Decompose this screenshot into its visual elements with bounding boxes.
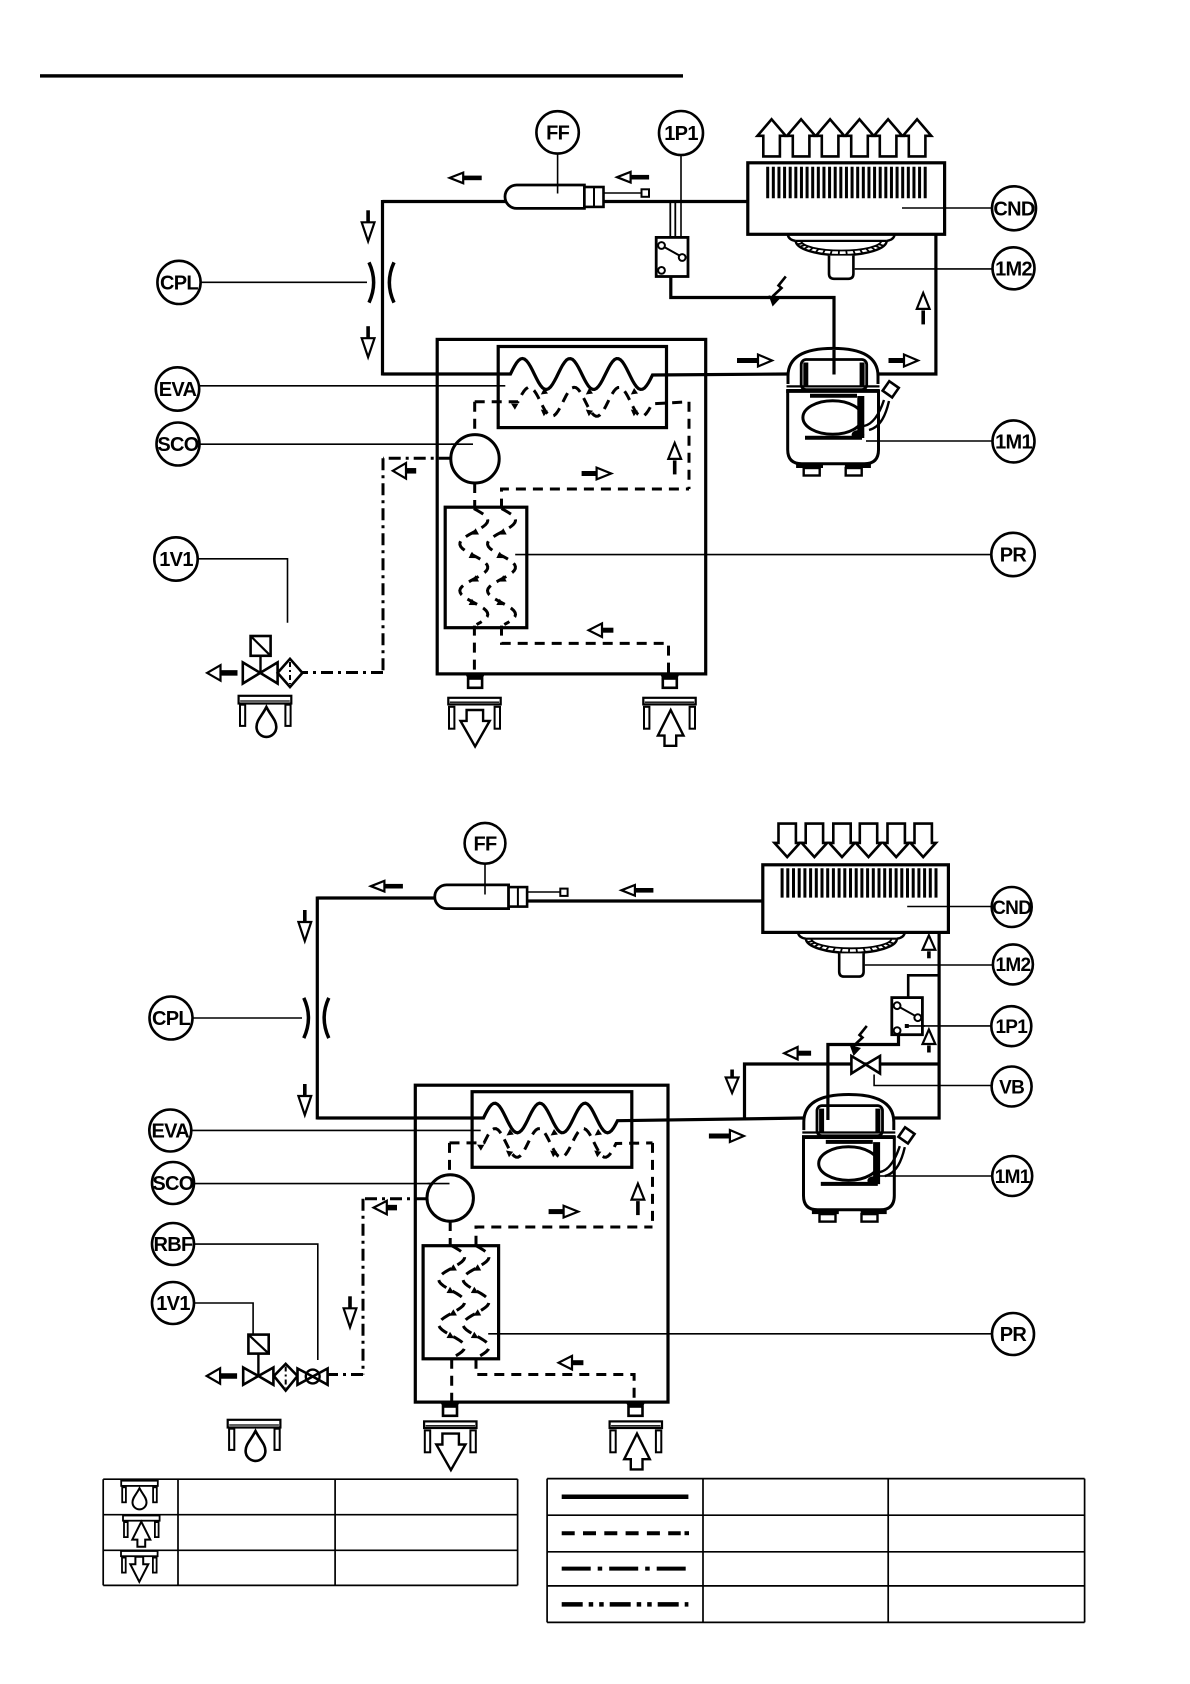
recuperator wave arrowheads (bottom) <box>449 1264 457 1270</box>
flow arrow left on liquid line 2 (top) <box>631 175 650 180</box>
pressure switch 1P1 box (top) <box>656 237 688 276</box>
wire liquid line left segment (bottom) <box>317 896 435 899</box>
electric spark symbol (top) <box>773 276 786 296</box>
air duct dashed: lower inlet horizontal (bottom) <box>476 1359 634 1402</box>
wire condenser down pipe right (bottom) <box>894 932 939 1118</box>
wire liquid line right segment (top) <box>603 200 748 203</box>
wire switch to compressor (top) <box>671 277 834 375</box>
flow arrow right suction (bottom) <box>709 1134 730 1139</box>
wire liquid line right segment (bottom) <box>527 899 763 902</box>
flow arrow down (drain, bottom) <box>348 1296 352 1308</box>
svg-text:CND: CND <box>993 199 1034 221</box>
wire discharge/condenser pipe right (top) <box>879 234 936 374</box>
label SCO (bottom) <box>152 1162 194 1204</box>
svg-text:1M1: 1M1 <box>995 1167 1031 1188</box>
valve stem (bottom) <box>257 1354 259 1376</box>
solenoid coil 1V1 (top) <box>251 636 271 656</box>
label line FF overlay (bottom) <box>484 886 486 895</box>
flow arrow down coupling lower (top) <box>366 326 370 338</box>
label line FF overlay (top) <box>557 186 559 194</box>
label line SCO (top) <box>200 443 474 445</box>
drain valve RBF (bottom) <box>298 1369 313 1385</box>
flow arrow down coupling upper (top) <box>366 210 370 222</box>
drain dash-dot: vertical (bottom) <box>362 1199 365 1375</box>
compressor 1M1 (top) <box>788 348 878 384</box>
accumulator SCO (bottom) <box>427 1175 473 1221</box>
flow arrow left on liquid line 2 (bottom) <box>635 888 654 893</box>
solenoid coil 1V1 (bottom) <box>248 1335 268 1354</box>
wire left drop pipe (top) <box>381 200 384 376</box>
strainer diamond (bottom) <box>274 1364 298 1391</box>
label line 1M2 (bottom) <box>865 964 993 966</box>
air duct dashed: accumulator to recuperator (top) <box>473 483 476 509</box>
recuperator left air wave (top) <box>460 509 488 625</box>
svg-text:VB: VB <box>999 1077 1024 1098</box>
flow arrow left (drain, bottom) <box>387 1205 397 1211</box>
wire into compressor terminal (top) <box>832 350 835 375</box>
label line CND (bottom) <box>907 906 992 908</box>
drain dash-dot: vertical (top) <box>382 458 385 672</box>
air duct dashed: recuperator to left foot (bottom) <box>450 1359 453 1402</box>
filter drier FF (bottom) <box>435 885 509 909</box>
compressor 1M1 (bottom) <box>804 1095 894 1131</box>
legend line dashed (air) <box>562 1531 681 1535</box>
label line 1M1 (bottom) <box>880 1175 992 1177</box>
electric spark symbol (bottom) <box>854 1026 867 1046</box>
air duct dashed: evaporator air wave (top) <box>475 387 689 416</box>
label EVA (top) <box>156 367 199 410</box>
header rule <box>40 74 683 77</box>
legend line solid (refrigerant) <box>562 1494 689 1499</box>
wire bypass branch VB (bottom) <box>745 1064 940 1118</box>
cabinet foot left (bottom) <box>440 1401 461 1407</box>
legend table left grid <box>103 1478 517 1480</box>
wire switch top connection (bottom) <box>908 975 939 997</box>
cabinet outline (top) <box>437 339 706 674</box>
label line 1M1 overlay (top) <box>866 440 880 442</box>
label line 1V1 (bottom) <box>194 1303 253 1335</box>
label EVA (bottom) <box>149 1110 191 1152</box>
recuperator right air wave (bottom) <box>463 1246 489 1358</box>
recuperator wave arrowheads (top) <box>471 528 479 534</box>
label PR (bottom) <box>992 1313 1034 1355</box>
wire left drop pipe (bottom) <box>316 897 319 1120</box>
air outlet grille down (top) <box>448 698 500 705</box>
flow arrow left (air inlet, bottom) <box>572 1360 583 1365</box>
flow arrow right discharge (top) <box>889 358 905 363</box>
condenser CND box with fins (top) <box>748 163 945 235</box>
svg-text:RBF: RBF <box>153 1234 192 1256</box>
label SCO (top) <box>157 423 200 466</box>
label FF (bottom) <box>465 823 506 864</box>
filter drier FF (top) <box>505 185 584 208</box>
legend symbol air outlet <box>121 1551 158 1556</box>
label line 1P1 overlay with dot (bottom) <box>907 1025 926 1027</box>
label line 1P1 (top) <box>680 155 682 237</box>
label line SCO (bottom) <box>194 1183 450 1185</box>
label line PR (bottom) <box>488 1333 992 1335</box>
svg-text:FF: FF <box>473 834 497 856</box>
label line CND overlay (top) <box>902 207 946 209</box>
label RBF (bottom) <box>152 1223 194 1265</box>
condenser air arrows up (top) <box>757 119 785 156</box>
air duct dashed: to accumulator (top) <box>473 402 476 435</box>
label line CPL (bottom) <box>193 1017 303 1019</box>
air duct dashed: recuperator to left foot (top) <box>473 626 476 674</box>
wire pressure-switch sensing capillary (top) <box>669 203 671 237</box>
condenser air arrows down (bottom) <box>774 824 800 857</box>
label line 1M2 (top) <box>855 268 993 270</box>
flow arrow up discharge riser (top) <box>917 293 930 309</box>
label line CPL (top) <box>201 281 367 283</box>
recuperator left air wave (bottom) <box>439 1246 465 1358</box>
wire suction line with evaporator coil wave (top) <box>383 359 788 390</box>
label line 1M1 overlay (bottom) <box>880 1175 896 1177</box>
svg-text:1M1: 1M1 <box>995 432 1032 454</box>
legend line dash-dot-dot <box>562 1602 689 1607</box>
label line EVA (top) <box>199 385 505 387</box>
label 1P1 (bottom) <box>991 1006 1031 1046</box>
wire switch to compressor (bottom) <box>828 1035 899 1120</box>
label line 1M1 (top) <box>866 440 993 442</box>
wire suction line with evaporator coil wave (bottom) <box>317 1103 803 1133</box>
flow arrow left (air inlet, top) <box>602 628 613 633</box>
label line PR (top) <box>515 554 991 556</box>
drip tray symbol (bottom) <box>228 1420 281 1428</box>
label 1V1 (bottom) <box>152 1282 194 1324</box>
drain dash-dot: to valve (bottom) <box>328 1373 363 1376</box>
label FF (top) <box>536 111 578 153</box>
label 1V1 (top) <box>154 537 197 580</box>
flow arrow up (air riser, bottom) <box>632 1184 645 1200</box>
label line FF (top) <box>557 154 559 193</box>
cabinet outline (bottom) <box>415 1085 668 1402</box>
svg-text:1M2: 1M2 <box>995 955 1030 976</box>
cabinet foot left (top) <box>465 673 486 679</box>
accumulator SCO (top) <box>451 435 499 483</box>
bypass valve VB (bottom) <box>851 1056 865 1074</box>
flow arrow down bypass branch (bottom) <box>730 1070 734 1078</box>
recuperator box PR (top) <box>445 507 527 628</box>
recuperator box PR (bottom) <box>423 1246 499 1359</box>
label 1M1 (bottom) <box>992 1156 1032 1196</box>
flow arrow left drain outlet (top) <box>221 670 238 676</box>
wire into compressor terminal (bottom) <box>826 1096 829 1120</box>
legend symbol drip tray <box>121 1481 158 1486</box>
evaporator box EVA (top) <box>498 347 666 428</box>
wire filter capillary with strainer (bottom) <box>527 891 561 893</box>
svg-text:FF: FF <box>546 123 570 145</box>
label CND (top) <box>992 186 1036 230</box>
wire filter capillary with strainer (top) <box>603 192 642 194</box>
label CPL (top) <box>157 261 200 304</box>
svg-text:SCO: SCO <box>157 434 198 456</box>
air duct dashed: right riser (bottom) <box>651 1143 654 1227</box>
legend symbol air inlet <box>123 1516 160 1521</box>
label line 1V1 (top) <box>198 559 288 623</box>
cabinet foot right (top) <box>659 673 680 679</box>
air duct dashed: to accumulator (bottom) <box>448 1143 451 1175</box>
svg-text:CND: CND <box>992 898 1031 919</box>
flow arrow left drain outlet (bottom) <box>220 1373 237 1379</box>
air duct dashed: accumulator to recuperator (bottom) <box>449 1221 452 1246</box>
svg-text:CPL: CPL <box>152 1008 190 1030</box>
flow arrow left bypass (bottom) <box>798 1051 812 1056</box>
recuperator right air wave (top) <box>488 509 516 625</box>
svg-text:SCO: SCO <box>152 1173 193 1195</box>
label 1M2 (top) <box>993 247 1035 289</box>
air duct dashed: upper return horizontal (top) <box>502 489 690 509</box>
air wave arrowheads (top) <box>511 404 518 410</box>
expansion valve body (top) <box>243 662 260 683</box>
flow arrow right (air return, bottom) <box>549 1209 564 1214</box>
label VB (bottom) <box>992 1067 1032 1107</box>
cabinet foot right (bottom) <box>625 1401 646 1407</box>
flow arrow right (air return, top) <box>582 471 597 476</box>
svg-text:1P1: 1P1 <box>664 123 698 145</box>
drain dash-dot: to valve (top) <box>302 671 383 674</box>
legend table right grid <box>547 1478 1085 1480</box>
label line EVA (bottom) <box>191 1129 480 1131</box>
svg-text:PR: PR <box>1000 1324 1028 1346</box>
strainer diamond (top) <box>278 659 303 687</box>
flow arrow right suction (top) <box>737 358 758 363</box>
flow arrow up switch riser (bottom) <box>923 1030 936 1045</box>
label line FF (bottom) <box>484 864 486 894</box>
drain dash-dot: accumulator to left (bottom) <box>363 1197 427 1200</box>
svg-text:EVA: EVA <box>152 1121 190 1143</box>
svg-text:1V1: 1V1 <box>159 549 193 571</box>
air duct dashed: lower inlet horizontal (top) <box>502 626 669 674</box>
flow arrow down coupling upper (bottom) <box>303 910 307 922</box>
label line CND overlay (bottom) <box>907 906 950 908</box>
svg-text:1P1: 1P1 <box>995 1017 1028 1038</box>
flow arrow left on liquid line 1 (bottom) <box>384 884 403 889</box>
label line CND (top) <box>902 207 992 209</box>
flow arrow left on liquid line 1 (top) <box>463 176 482 181</box>
label 1M2 (bottom) <box>993 944 1033 984</box>
coupling CPL symbol (top) <box>369 262 374 302</box>
label line VB (bottom) <box>874 1075 992 1086</box>
condenser fan (bottom) <box>798 932 806 939</box>
flow arrow up condenser riser (bottom) <box>923 935 936 950</box>
label line RBF (bottom) <box>194 1244 318 1360</box>
air duct dashed: right riser (top) <box>688 402 691 489</box>
label 1P1 (top) <box>659 111 703 155</box>
air outlet grille down (bottom) <box>424 1421 476 1428</box>
air inlet grille up (top) <box>643 698 695 705</box>
svg-text:EVA: EVA <box>159 379 197 401</box>
flow arrow up (air riser, top) <box>668 443 681 459</box>
pressure switch 1P1 box (bottom) <box>892 998 923 1035</box>
air duct dashed: evaporator air wave (bottom) <box>450 1129 653 1158</box>
label 1M1 (top) <box>993 420 1035 462</box>
wire liquid line left segment (top) <box>383 200 507 203</box>
condenser CND box with fins (bottom) <box>763 865 949 933</box>
evaporator box EVA (bottom) <box>472 1092 632 1168</box>
label PR (top) <box>991 533 1034 576</box>
label line 1P1 (bottom) <box>907 1025 992 1027</box>
air wave arrowheads (bottom) <box>477 1145 484 1151</box>
label CND (bottom) <box>992 887 1032 927</box>
svg-text:1M2: 1M2 <box>995 259 1032 281</box>
condenser fan (top) <box>788 234 796 241</box>
svg-text:1V1: 1V1 <box>156 1293 190 1315</box>
air inlet grille up (bottom) <box>610 1421 662 1428</box>
legend line dash-dot (drain) <box>562 1567 689 1571</box>
drip tray symbol (top) <box>239 696 292 704</box>
svg-text:PR: PR <box>1000 545 1028 567</box>
expansion valve body (bottom) <box>243 1368 258 1385</box>
drain dash-dot: accumulator to left (top) <box>383 457 451 460</box>
coupling CPL symbol (bottom) <box>304 998 309 1038</box>
svg-text:CPL: CPL <box>160 273 198 295</box>
air duct dashed: upper return horizontal (bottom) <box>476 1227 653 1246</box>
flow arrow down coupling lower (bottom) <box>303 1084 307 1096</box>
valve stem (top) <box>259 656 261 673</box>
label CPL (bottom) <box>150 997 193 1040</box>
flow arrow left (drain, top) <box>406 468 416 474</box>
